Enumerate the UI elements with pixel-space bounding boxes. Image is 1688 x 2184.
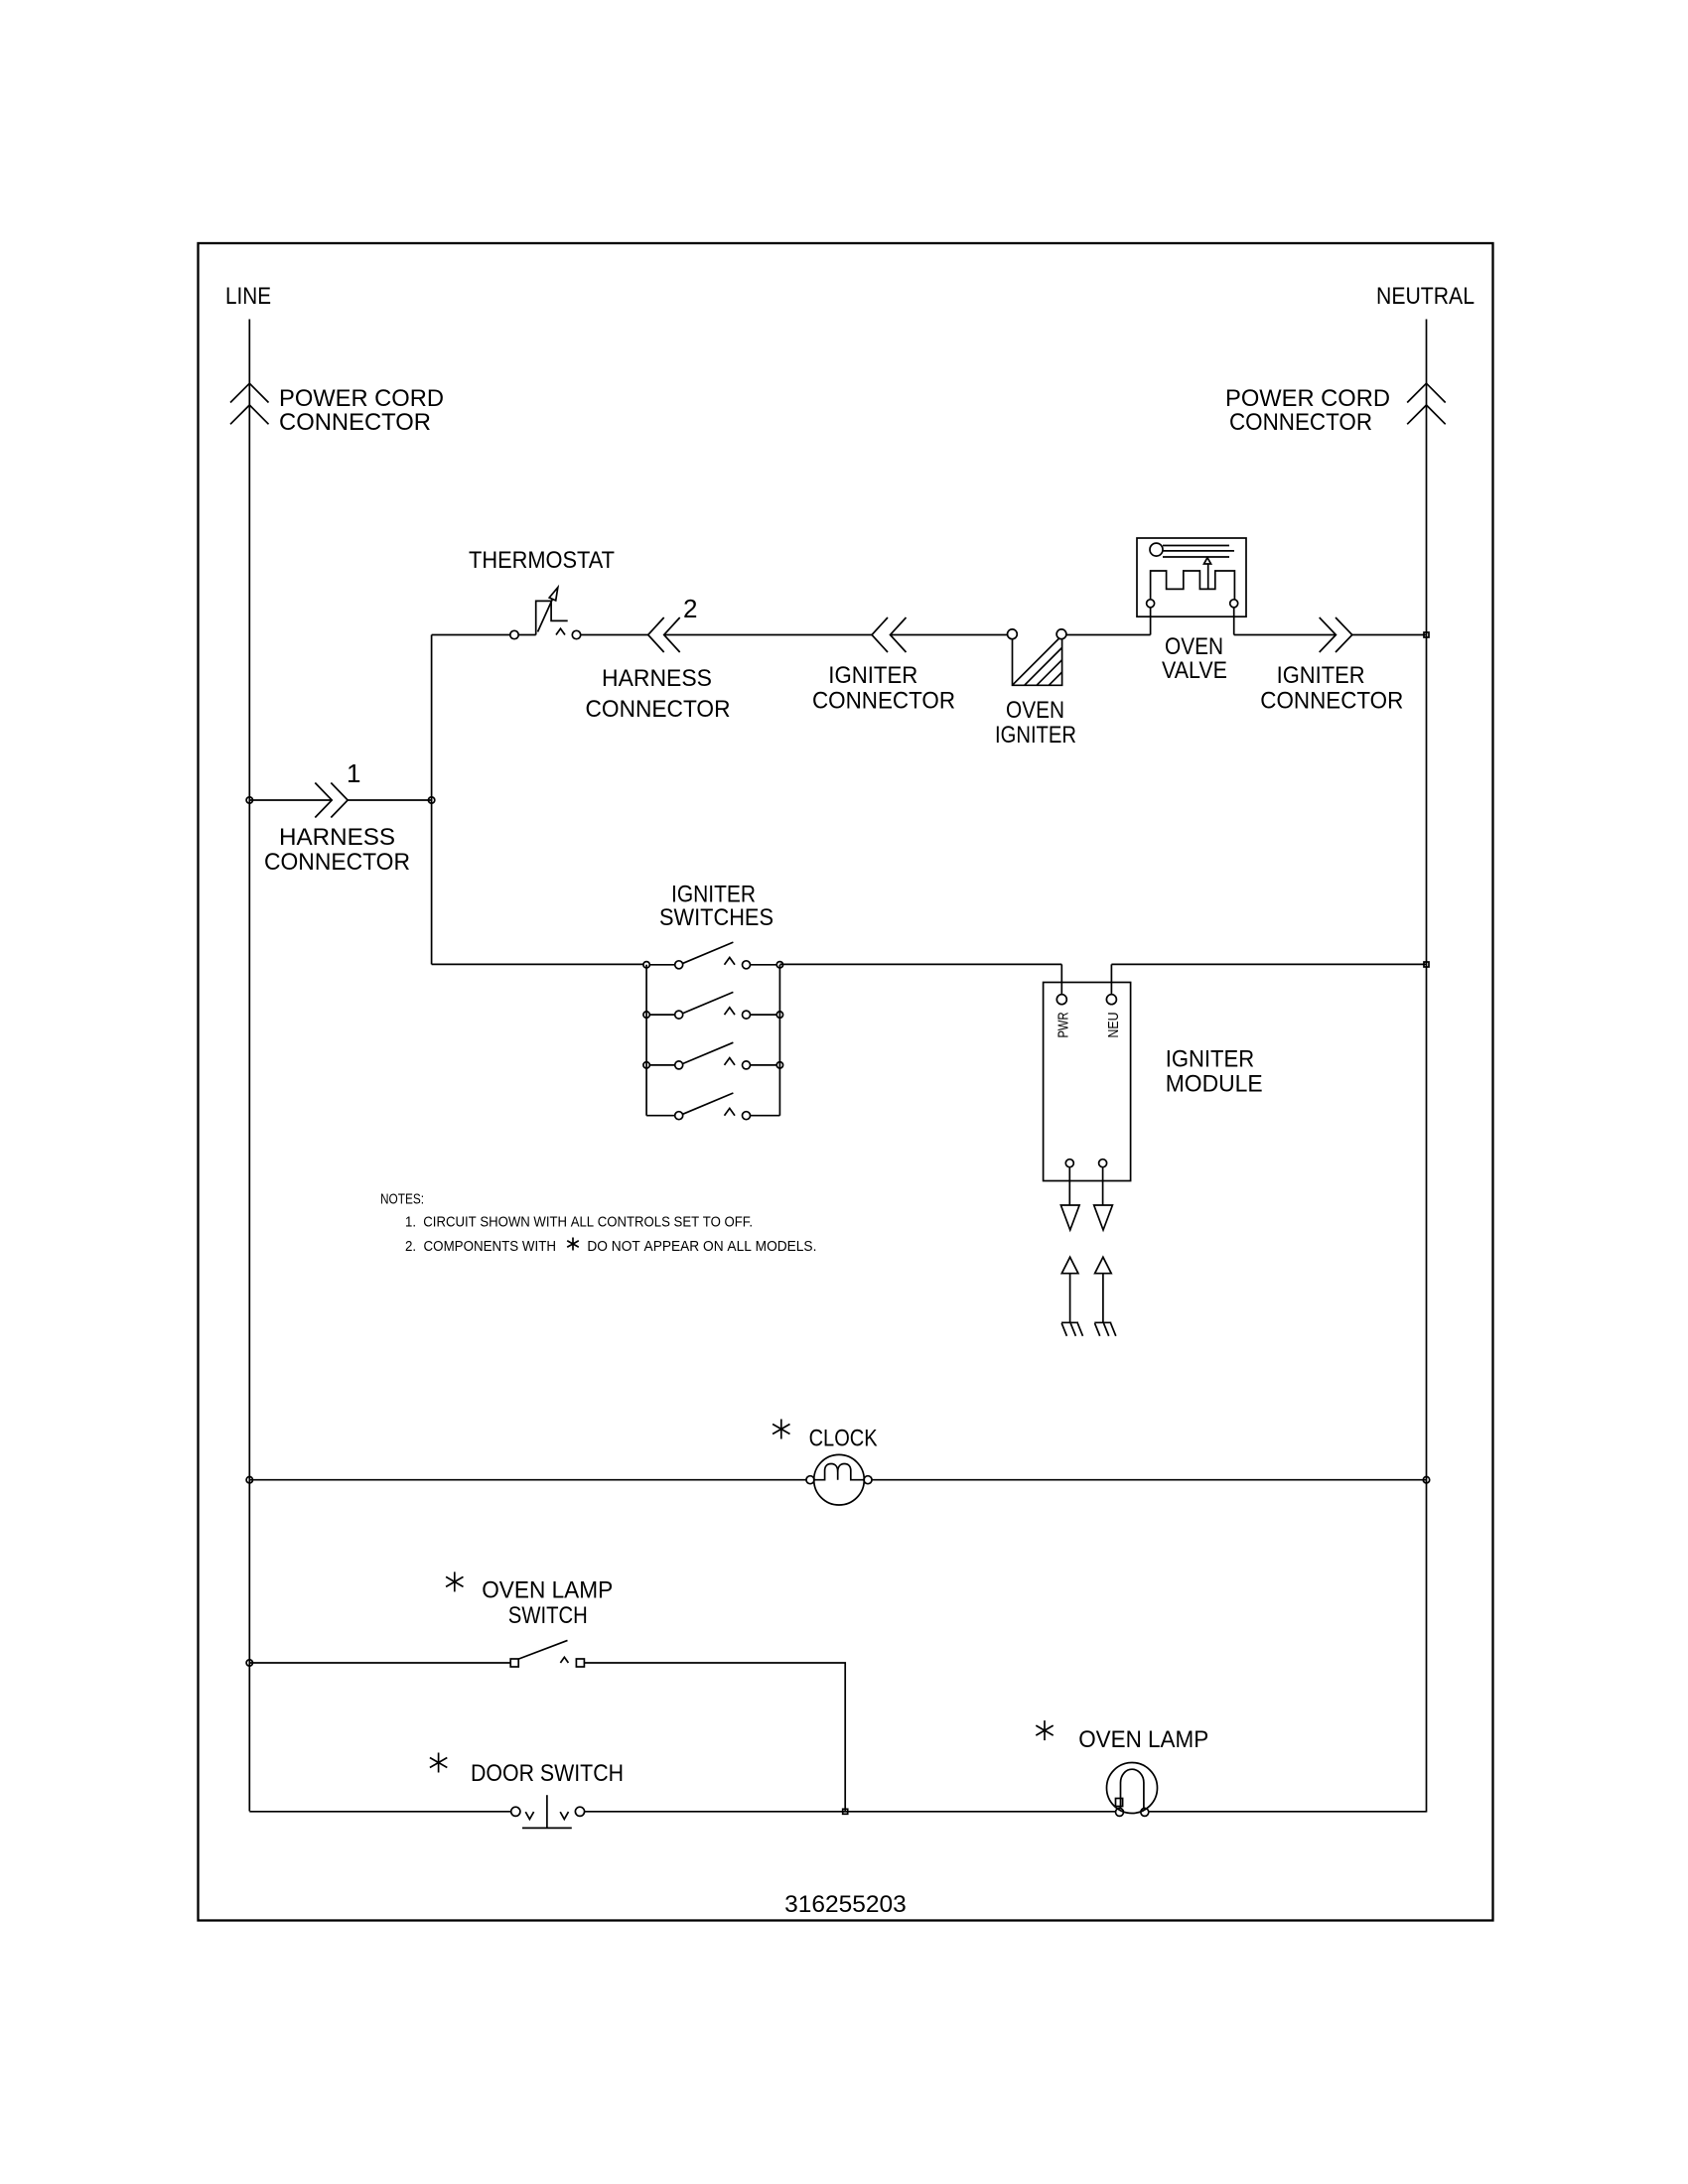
junction square at NEUTRAL rail bbox=[1424, 632, 1429, 637]
ground 2 bbox=[1094, 1322, 1116, 1336]
junction at NEUTRAL rail (clock) bbox=[1423, 1477, 1429, 1483]
svg-text:OVEN LAMP: OVEN LAMP bbox=[1078, 1726, 1208, 1753]
wire igniter switch bus from riser bbox=[432, 963, 643, 965]
svg-text:OVEN: OVEN bbox=[1006, 697, 1064, 724]
svg-text:HARNESS: HARNESS bbox=[602, 665, 712, 692]
thermostat bbox=[510, 588, 581, 639]
svg-text:OVEN: OVEN bbox=[1165, 633, 1223, 660]
igniter switch 3 bbox=[643, 1042, 783, 1069]
ground 1 bbox=[1061, 1322, 1083, 1336]
igniter connector right (chevrons) bbox=[1320, 617, 1352, 652]
asterisk (oven lamp switch) bbox=[446, 1571, 463, 1591]
svg-text:NEU: NEU bbox=[1105, 1013, 1122, 1038]
svg-text:1. CIRCUIT SHOWN WITH ALL CON: 1. CIRCUIT SHOWN WITH ALL CONTROLS SET T… bbox=[405, 1214, 753, 1231]
wire clock line left bbox=[249, 1479, 806, 1481]
oven valve bbox=[1137, 538, 1246, 635]
wire thermostat to harness connector 2 bbox=[581, 634, 648, 636]
igniter switches right bus bbox=[778, 965, 780, 1116]
asterisk (door switch) bbox=[430, 1753, 447, 1773]
wire right NEUTRAL rail bbox=[1426, 320, 1428, 1813]
svg-text:IGNITER: IGNITER bbox=[1166, 1046, 1255, 1073]
svg-text:CONNECTOR: CONNECTOR bbox=[586, 696, 731, 723]
door switch bbox=[511, 1795, 585, 1828]
svg-text:CONNECTOR: CONNECTOR bbox=[264, 849, 410, 876]
igniter module bottom pin 1 bbox=[1065, 1160, 1073, 1167]
harness connector 2 (chevrons) bbox=[648, 617, 680, 652]
svg-text:2. COMPONENTS WITH: 2. COMPONENTS WITH bbox=[405, 1238, 556, 1255]
clock motor bbox=[806, 1454, 872, 1505]
wire oven lamp switch line bbox=[249, 1662, 510, 1664]
svg-text:NEUTRAL: NEUTRAL bbox=[1376, 283, 1475, 310]
wire drop to PWR pin bbox=[1060, 964, 1062, 994]
wire door switch line left bbox=[249, 1811, 510, 1813]
svg-text:THERMOSTAT: THERMOSTAT bbox=[469, 547, 615, 574]
oven lamp switch bbox=[510, 1640, 584, 1667]
wire oven igniter to oven valve bbox=[1066, 634, 1151, 636]
wire from LINE rail to harness connector 1 bbox=[249, 799, 431, 801]
svg-text:SWITCH: SWITCH bbox=[508, 1602, 588, 1629]
svg-text:MODULE: MODULE bbox=[1166, 1071, 1263, 1098]
svg-text:DOOR SWITCH: DOOR SWITCH bbox=[471, 1760, 624, 1787]
svg-text:1: 1 bbox=[347, 758, 360, 788]
pin NEU bbox=[1106, 995, 1116, 1005]
svg-text:IGNITER: IGNITER bbox=[828, 662, 917, 689]
svg-text:CONNECTOR: CONNECTOR bbox=[812, 688, 955, 715]
igniter module bottom pin 2 bbox=[1099, 1160, 1107, 1167]
burner electrode 2 (up arrow) bbox=[1095, 1257, 1112, 1322]
svg-text:HARNESS: HARNESS bbox=[279, 824, 395, 851]
pin PWR bbox=[1056, 995, 1066, 1005]
wire lamp switch to corner bbox=[584, 1663, 845, 1812]
svg-text:CONNECTOR: CONNECTOR bbox=[279, 409, 431, 436]
svg-text:POWER CORD: POWER CORD bbox=[279, 385, 444, 412]
svg-text:SWITCHES: SWITCHES bbox=[659, 904, 774, 931]
wire thermostat branch left bbox=[432, 634, 510, 636]
svg-text:DO NOT APPEAR ON ALL MODELS.: DO NOT APPEAR ON ALL MODELS. bbox=[587, 1238, 816, 1255]
svg-text:CONNECTOR: CONNECTOR bbox=[1260, 688, 1403, 715]
power cord connector (LINE) bbox=[230, 383, 269, 424]
svg-text:LINE: LINE bbox=[225, 283, 271, 310]
junction at left rail bbox=[246, 797, 252, 803]
svg-text:2: 2 bbox=[683, 594, 697, 623]
wire riser from harness connector up to thermostat line and down to igniter switch bus bbox=[431, 635, 433, 965]
igniter switch 2 bbox=[643, 992, 783, 1019]
svg-text:VALVE: VALVE bbox=[1162, 657, 1227, 684]
igniter connector (chevrons) bbox=[872, 617, 907, 652]
junction at LINE rail (clock) bbox=[246, 1477, 252, 1483]
wire drop to NEU pin bbox=[1110, 964, 1112, 994]
igniter switch 4 bbox=[646, 1093, 779, 1120]
svg-text:NOTES:: NOTES: bbox=[380, 1190, 424, 1207]
wire igniter module NEU to NEUTRAL rail bbox=[1111, 963, 1426, 965]
svg-text:316255203: 316255203 bbox=[784, 1891, 907, 1918]
svg-text:CLOCK: CLOCK bbox=[809, 1426, 878, 1452]
wire igniter connector right to NEUTRAL rail bbox=[1352, 634, 1427, 636]
wire clock line right bbox=[872, 1479, 1427, 1481]
igniter switches left bus bbox=[645, 965, 647, 1116]
igniter switch 1 bbox=[643, 942, 783, 969]
spark lead 1 (down arrow) bbox=[1060, 1167, 1079, 1230]
svg-text:IGNITER: IGNITER bbox=[1277, 662, 1365, 689]
wire harness connector 2 to igniter connector bbox=[664, 634, 872, 636]
junction at LINE rail (lamp switch) bbox=[246, 1660, 252, 1666]
igniter module box bbox=[1044, 983, 1131, 1181]
svg-text:IGNITER: IGNITER bbox=[995, 722, 1076, 749]
asterisk (oven lamp) bbox=[1036, 1720, 1053, 1740]
wire left LINE rail bbox=[248, 320, 250, 1812]
svg-text:POWER CORD: POWER CORD bbox=[1225, 385, 1390, 412]
wire igniter connector to oven igniter bbox=[891, 634, 1008, 636]
wire oven valve to igniter connector right bbox=[1234, 634, 1336, 636]
junction square at NEUTRAL rail (igniter module line) bbox=[1424, 962, 1429, 967]
asterisk (clock) bbox=[773, 1420, 789, 1439]
junction square (lamp switch drop) bbox=[843, 1809, 848, 1814]
svg-text:PWR: PWR bbox=[1055, 1012, 1072, 1037]
oven lamp bbox=[1107, 1763, 1158, 1817]
asterisk (notes) bbox=[567, 1238, 579, 1251]
svg-text:CONNECTOR: CONNECTOR bbox=[1229, 409, 1372, 436]
power cord connector (NEUTRAL) bbox=[1407, 383, 1446, 424]
wire igniter switches to igniter module PWR bbox=[779, 963, 1061, 965]
harness connector 1 (chevrons) bbox=[315, 783, 348, 818]
spark lead 2 (down arrow) bbox=[1094, 1167, 1113, 1230]
svg-text:OVEN LAMP: OVEN LAMP bbox=[482, 1577, 613, 1604]
wire oven lamp to NEUTRAL rail corner bbox=[1149, 1811, 1427, 1813]
oven igniter (hatched heater box) bbox=[1008, 629, 1066, 685]
junction at vertical riser bbox=[428, 797, 434, 803]
wire door switch to junction bbox=[585, 1811, 1116, 1813]
burner electrode 1 (up arrow) bbox=[1061, 1257, 1078, 1322]
